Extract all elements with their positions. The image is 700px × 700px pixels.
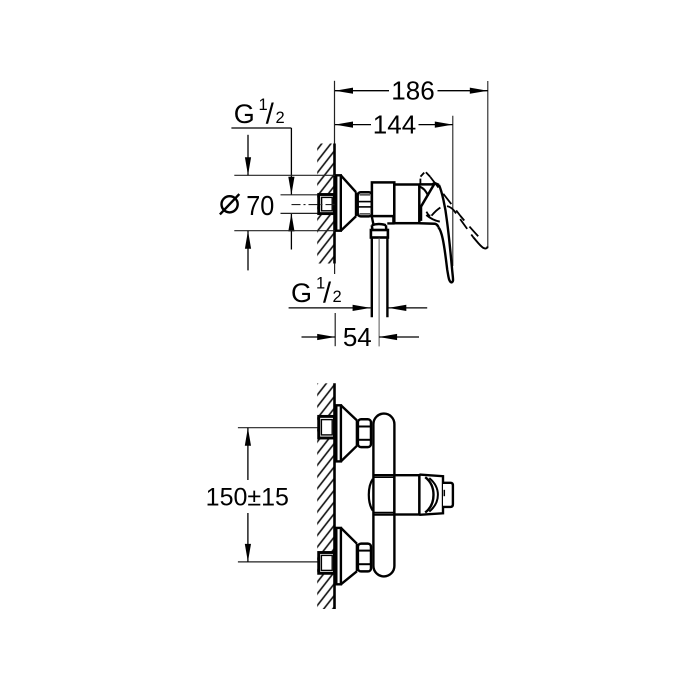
hex nut bottom (bottom view) xyxy=(358,544,371,572)
extension line 150 top xyxy=(238,427,319,429)
svg-text:186: 186 xyxy=(391,76,434,106)
escutcheon cone bottom (bottom view) xyxy=(341,528,357,584)
escutcheon cone (top view) xyxy=(341,175,356,230)
wall face line (top view) xyxy=(333,144,336,264)
cartridge dome bulge on capsule left edge xyxy=(369,479,373,511)
handle hood arc xyxy=(419,187,428,196)
handle lower arc xyxy=(426,215,440,222)
extension line 150 bottom xyxy=(238,561,319,563)
wall face thin continuation xyxy=(334,263,336,274)
outlet collar xyxy=(372,224,387,230)
svg-text:/: / xyxy=(266,99,275,131)
svg-text:2: 2 xyxy=(276,109,285,127)
handle cap (bottom view) xyxy=(419,475,443,515)
valve body rear block (top view) xyxy=(372,182,394,216)
escutcheon cone top (bottom view) xyxy=(341,405,357,461)
G1/2 arrow down to thread top xyxy=(290,128,292,195)
extension line: 144 right (cartridge face) xyxy=(452,116,454,266)
outlet stub xyxy=(372,216,394,224)
escutcheon flange top (bottom view) xyxy=(336,405,341,461)
handle cap top edge xyxy=(419,183,439,185)
centerline through union xyxy=(292,204,337,206)
dimension 186 line xyxy=(335,90,389,92)
lever (closed position) xyxy=(438,185,453,283)
label G 1/2 (top) xyxy=(234,96,285,131)
extension line C: thread bottom xyxy=(281,212,319,214)
mixer body capsule xyxy=(373,414,394,577)
G1/2 outlet arrow left xyxy=(388,307,427,309)
Ø70 arrow up to escutcheon bottom xyxy=(247,231,249,271)
outlet pipe walls xyxy=(371,238,373,318)
escutcheon flange (top view) xyxy=(336,175,341,230)
lever dashed apex (open position) xyxy=(420,172,430,184)
cartridge housing lines across capsule xyxy=(373,474,394,476)
dimension 150±15 arrows xyxy=(247,428,249,480)
extension line D: escutcheon bottom xyxy=(234,230,335,232)
wall hatching (top view) xyxy=(317,144,334,264)
wall face line (bottom view) xyxy=(333,383,336,609)
label G 1/2 (outlet) xyxy=(291,275,342,310)
handle cap left edge xyxy=(421,183,435,221)
outlet pipe centerline xyxy=(378,238,380,347)
wall union square (top view) xyxy=(319,195,335,214)
Ø70 arrow down to escutcheon top xyxy=(247,135,249,176)
hex nut (top view) xyxy=(358,192,372,216)
lever dashed upper edge (open) xyxy=(430,177,483,241)
cartridge stem xyxy=(394,475,419,514)
svg-text:70: 70 xyxy=(246,190,274,222)
extension line: wall face up to dims xyxy=(334,81,336,144)
G1/2 arrow up to thread bottom xyxy=(290,213,292,249)
union square top (bottom view) xyxy=(319,416,335,438)
escutcheon flange bottom (bottom view) xyxy=(336,528,341,584)
dimension 144 line xyxy=(335,124,371,126)
dimension 54 arrows xyxy=(302,336,336,338)
valve body front block (top view) xyxy=(394,185,419,224)
union square bottom (bottom view) xyxy=(319,553,335,574)
svg-text:G: G xyxy=(291,278,312,308)
handle cap dome arcs xyxy=(425,477,433,512)
svg-text:150±15: 150±15 xyxy=(206,483,289,511)
svg-text:144: 144 xyxy=(373,110,416,140)
hex nut top (bottom view) xyxy=(358,419,371,447)
extension line B: thread top xyxy=(281,194,319,196)
svg-text:2: 2 xyxy=(333,288,342,306)
extension line: wall face for 54 xyxy=(334,313,336,346)
svg-text:G: G xyxy=(234,99,255,129)
label Ø 70 xyxy=(220,194,239,214)
svg-text:/: / xyxy=(323,278,332,310)
wall hatching (bottom view) xyxy=(317,383,334,609)
G1/2 leader underline xyxy=(231,127,291,129)
extension line: 186 right (handle tip) xyxy=(487,81,489,248)
handle cap bottom edge with step xyxy=(419,223,438,227)
knob tick xyxy=(443,490,445,496)
shower hose nut xyxy=(371,230,388,238)
extension line A: escutcheon top xyxy=(234,174,335,176)
lever tip hook (open) xyxy=(473,237,487,248)
handle knob (bottom view) xyxy=(443,483,453,507)
svg-text:54: 54 xyxy=(343,322,372,352)
lever dashed lower edge (open) xyxy=(426,212,431,216)
G1/2 outlet leader with arrow right xyxy=(289,307,371,309)
